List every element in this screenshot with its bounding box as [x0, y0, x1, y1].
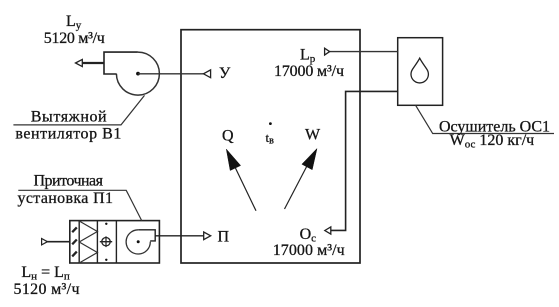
- svg-text:tв: tв: [266, 130, 275, 147]
- svg-text:17000 м³/ч: 17000 м³/ч: [274, 63, 344, 80]
- svg-text:Lу: Lу: [66, 13, 82, 32]
- svg-text:П: П: [218, 228, 230, 245]
- svg-text:Wос 120 кг/ч: Wос 120 кг/ч: [450, 132, 535, 151]
- svg-text:5120 м³/ч: 5120 м³/ч: [14, 281, 80, 298]
- svg-text:5120 м³/ч: 5120 м³/ч: [44, 30, 105, 47]
- svg-text:Вытяжной: Вытяжной: [31, 109, 107, 126]
- svg-text:17000 м³/ч: 17000 м³/ч: [273, 242, 345, 259]
- svg-text:Приточная: Приточная: [34, 173, 104, 190]
- svg-text:W: W: [305, 127, 321, 144]
- svg-text:Lн = Lп: Lн = Lп: [21, 264, 69, 283]
- svg-text:вентилятор В1: вентилятор В1: [15, 126, 121, 143]
- svg-text:установка П1: установка П1: [18, 190, 114, 207]
- svg-text:У: У: [219, 65, 231, 82]
- svg-text:Q: Q: [222, 128, 234, 145]
